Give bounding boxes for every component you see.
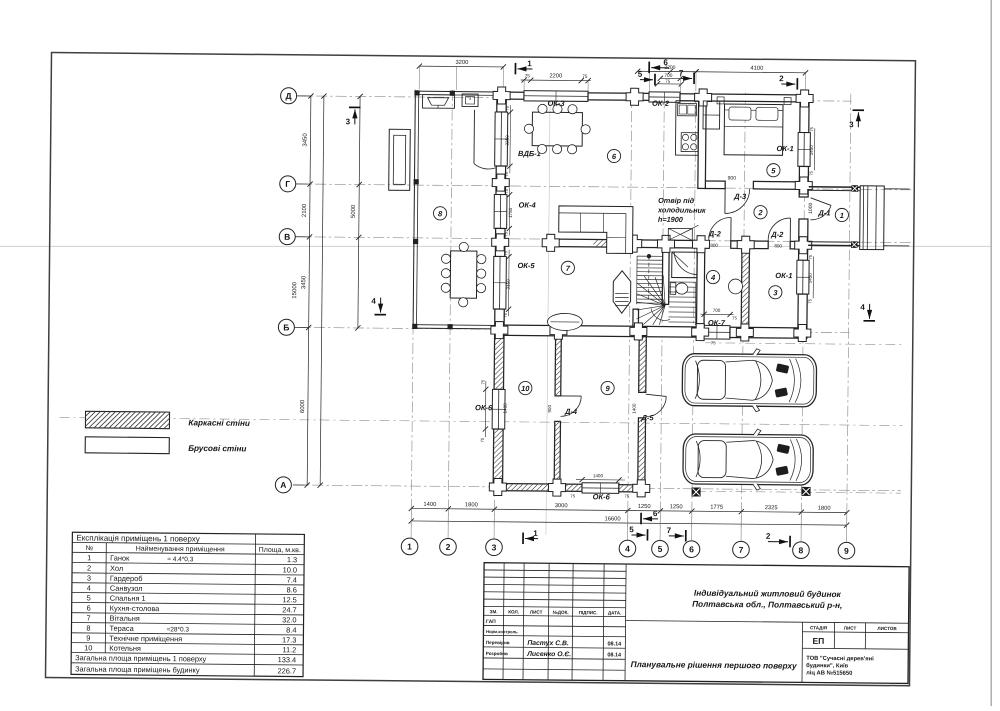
svg-text:3450: 3450: [300, 275, 307, 289]
svg-text:9: 9: [844, 546, 849, 556]
svg-text:Санвузол: Санвузол: [110, 584, 143, 593]
porch post upper: [852, 185, 859, 192]
svg-text:h=1900: h=1900: [658, 215, 683, 224]
bedroom wardrobe: [703, 101, 720, 129]
terrace sink unit: [462, 94, 478, 107]
svg-text:5: 5: [629, 525, 634, 534]
bottom dimension chain segments: [409, 501, 850, 516]
svg-text:Лисенко О.Є.: Лисенко О.Є.: [526, 651, 571, 658]
sofa L-shaped: [559, 206, 633, 254]
window ОК-1 lower label: [775, 271, 792, 280]
porch steps: [860, 186, 885, 250]
svg-text:№ДОК.: №ДОК.: [553, 610, 569, 615]
room 9 number: [601, 381, 614, 394]
wing bottom wall right part: [619, 485, 645, 492]
svg-text:24.7: 24.7: [282, 605, 296, 614]
legend log walls swatch: [85, 437, 169, 454]
fridge note leader line: [681, 225, 698, 234]
svg-text:Технічне приміщення: Технічне приміщення: [109, 634, 182, 644]
svg-text:1400: 1400: [503, 403, 508, 414]
title block row Розробив: [486, 650, 622, 658]
window ОК-3: [524, 91, 588, 102]
svg-text:ОК-6: ОК-6: [475, 403, 493, 412]
terrace bottom edge: [413, 325, 495, 329]
grid bubble 2: [440, 509, 457, 555]
wing partition wall lower: [554, 421, 560, 484]
svg-text:75: 75: [505, 105, 510, 110]
svg-text:2100: 2100: [301, 203, 308, 217]
top dimension 3200: [417, 58, 506, 90]
room schedule row 5 Спальня 1: [87, 593, 297, 604]
wall on axis 6 upper (kitchen/bedroom partition): [698, 101, 706, 189]
svg-text:= 4.4*0,3: = 4.4*0,3: [167, 556, 194, 563]
stairwell left wall: [633, 309, 639, 326]
balcony door ВДБ-1 open leaf: [474, 110, 496, 169]
svg-text:Площа, м.кв.: Площа, м.кв.: [259, 547, 301, 554]
room schedule table grid: [71, 532, 304, 676]
svg-text:Тераса: Тераса: [109, 624, 134, 633]
svg-text:900: 900: [547, 404, 552, 412]
svg-text:7: 7: [86, 613, 90, 622]
svg-text:ОК-1: ОК-1: [775, 271, 792, 280]
section marker 6 bottom: [641, 509, 658, 524]
left dimension chain total: [289, 93, 326, 488]
wing right wall lower: [638, 418, 646, 492]
svg-text:Хол: Хол: [110, 564, 123, 573]
room schedule row 8 Тераса: [86, 624, 296, 635]
svg-text:7: 7: [667, 526, 672, 535]
grid bubble 8: [793, 512, 810, 558]
svg-text:Індивідуальний житловий будино: Індивідуальний житловий будинок: [694, 588, 842, 599]
terrace left edge (axis 1): [413, 91, 419, 328]
washbasin: [728, 279, 742, 294]
section marker 2 bottom: [766, 532, 790, 548]
window ОК-1 lower dim: [807, 254, 813, 303]
window ОК-3 label: [547, 99, 565, 108]
svg-text:08.14: 08.14: [607, 652, 622, 658]
grid bubble Г: [280, 176, 310, 192]
grid bubble 5: [652, 511, 669, 557]
svg-text:1450: 1450: [808, 273, 813, 284]
stage value ЕП: [812, 636, 824, 646]
title block row Перевірив: [486, 639, 622, 647]
left wall segment 2: [496, 166, 506, 195]
svg-text:4100: 4100: [750, 65, 763, 72]
wall on axis Г (bedroom partition) left part: [705, 181, 725, 189]
room schedule column headers: [85, 544, 300, 554]
section marker 2 top: [779, 74, 797, 89]
fridge note text: [657, 196, 706, 224]
car upper: [682, 348, 817, 412]
svg-text:3: 3: [87, 574, 91, 583]
svg-text:А: А: [280, 480, 286, 490]
left wall segment 3: [495, 228, 505, 256]
survey mark left: [692, 487, 701, 496]
svg-text:7: 7: [739, 545, 744, 555]
svg-text:2325: 2325: [765, 504, 778, 511]
room schedule total floor row: [75, 653, 296, 664]
wall on axis В segment middle: [731, 241, 768, 249]
svg-text:СТАДІЯ: СТАДІЯ: [810, 625, 827, 630]
svg-text:Д-4: Д-4: [564, 407, 578, 416]
svg-text:2: 2: [757, 208, 763, 217]
svg-text:75: 75: [809, 126, 814, 131]
top wall segment middle: [588, 93, 649, 101]
grid bubble В: [279, 229, 309, 245]
svg-text:Перевірив: Перевірив: [486, 640, 510, 645]
room schedule row 4 Санвузол: [87, 583, 297, 594]
svg-text:В: В: [284, 232, 290, 242]
outdoor fireplace left of terrace: [389, 129, 411, 190]
svg-text:1250: 1250: [638, 503, 651, 510]
svg-text:8: 8: [86, 624, 90, 633]
svg-text:ЗМ.: ЗМ.: [490, 609, 498, 614]
svg-text:1.3: 1.3: [287, 555, 297, 564]
svg-text:75: 75: [570, 493, 575, 498]
window ОК-5: [493, 256, 506, 309]
window ОК-2 label: [652, 99, 670, 108]
bathroom partition wall (hatched): [741, 248, 749, 327]
svg-text:ОК-2: ОК-2: [652, 99, 670, 108]
svg-text:1400: 1400: [632, 403, 637, 414]
svg-text:800: 800: [774, 243, 782, 248]
window ОК-5 dim 2150: [506, 279, 511, 290]
door Д-5 label: [640, 413, 654, 422]
svg-text:10.0: 10.0: [283, 565, 297, 574]
svg-text:75: 75: [624, 494, 629, 499]
svg-text:32.0: 32.0: [282, 615, 296, 624]
svg-text:1400: 1400: [423, 501, 436, 508]
wall on axis 6 lower (stair/bath partition): [697, 248, 705, 327]
grid bubble 7: [733, 512, 750, 558]
svg-text:ГАП: ГАП: [486, 619, 496, 625]
svg-text:Каркасні стіни: Каркасні стіни: [188, 418, 250, 428]
kitchen stove: [681, 133, 698, 152]
window ОК-1 upper: [798, 133, 811, 167]
left dimension chain inner: [298, 93, 313, 487]
room schedule total building row: [75, 664, 296, 675]
svg-text:Вітальня: Вітальня: [110, 614, 140, 623]
svg-text:ОК-5: ОК-5: [517, 261, 535, 270]
svg-text:Ганок: Ганок: [110, 553, 130, 562]
window ОК-1 upper label: [777, 144, 794, 153]
kitchen sink: [678, 103, 697, 116]
svg-text:1: 1: [87, 553, 91, 562]
bedside table right: [784, 98, 791, 105]
car lower: [683, 428, 814, 490]
grid bubble 1: [401, 508, 418, 554]
svg-text:75: 75: [503, 312, 508, 317]
top dimension 2200 window ОК-3: [521, 72, 591, 91]
svg-text:ліц АВ №515650: ліц АВ №515650: [806, 669, 852, 676]
svg-text:17.3: 17.3: [282, 635, 296, 644]
svg-text:5: 5: [87, 593, 91, 602]
svg-text:6: 6: [663, 58, 668, 67]
svg-text:2250: 2250: [505, 135, 510, 146]
svg-text:Д-2: Д-2: [708, 229, 722, 238]
door Д-4 label: [564, 407, 578, 416]
staircase start dot and centerline: [646, 254, 651, 300]
svg-text:Експлікація приміщень 1 поверх: Експлікація приміщень 1 поверху: [76, 533, 200, 543]
svg-text:8.6: 8.6: [287, 585, 297, 594]
svg-text:Розробив: Розробив: [486, 651, 508, 656]
svg-text:1000: 1000: [808, 202, 814, 213]
sheet frame: [46, 52, 916, 685]
staircase left run steps: [637, 256, 663, 304]
svg-text:08.14: 08.14: [607, 641, 622, 647]
room schedule row 7 Вітальня: [86, 613, 296, 624]
window ОК-6 bottom label: [593, 492, 611, 501]
room 3 number: [769, 286, 782, 299]
door Д-3 label: [733, 192, 747, 201]
wing left wall lower: [493, 429, 503, 491]
svg-text:7: 7: [679, 69, 684, 78]
svg-text:Кухня-столова: Кухня-столова: [110, 604, 161, 613]
stair spine wall: [662, 240, 669, 304]
door Д-4 leaf and arc: [561, 396, 582, 417]
svg-text:ОК-3: ОК-3: [547, 99, 565, 108]
svg-text:Д: Д: [286, 91, 292, 101]
svg-text:ОК-1: ОК-1: [777, 144, 794, 153]
svg-text:3: 3: [849, 120, 854, 129]
room schedule row 6 Кухня-столова: [87, 603, 297, 614]
svg-text:900: 900: [728, 175, 737, 181]
window ОК-2 dims 700 and 75: [650, 71, 685, 93]
window ОК-4 label: [519, 200, 537, 209]
window ОК-1 upper dim: [809, 126, 815, 175]
svg-text:75: 75: [582, 74, 588, 80]
svg-text:1250: 1250: [670, 503, 683, 510]
svg-text:ОК-7: ОК-7: [708, 318, 726, 327]
svg-text:Найменування приміщення: Найменування приміщення: [136, 545, 225, 554]
staircase winder fan: [636, 275, 670, 325]
parking dashed line above cars: [705, 343, 902, 345]
window ОК-6 left label: [475, 403, 493, 412]
staircase right run steps: [668, 287, 695, 322]
window ОК-7 label: [708, 318, 726, 327]
svg-text:75: 75: [504, 171, 509, 176]
door Д-1 label: [817, 208, 830, 217]
svg-text:3: 3: [346, 117, 351, 126]
svg-text:Пастух С.В.: Пастух С.В.: [527, 640, 569, 647]
terrace posts: [412, 90, 455, 329]
scan crease line horizontal: [0, 245, 991, 247]
door ВДБ-1 dim 2250: [505, 135, 510, 146]
horizontal axis lines Д Г В Б А: [293, 96, 914, 491]
dining table room 6: [524, 104, 590, 154]
porch extension lines: [884, 189, 910, 246]
fold line vertical: [546, 95, 550, 535]
svg-text:Д-3: Д-3: [733, 192, 747, 201]
grid bubble 3: [486, 509, 503, 555]
right wall segment 3: [799, 219, 808, 260]
svg-text:11.2: 11.2: [282, 645, 296, 654]
staircase landing line: [668, 282, 695, 325]
bottom wall Б segment right: [730, 327, 807, 338]
svg-text:Норм.контроль: Норм.контроль: [486, 629, 518, 634]
svg-text:№: №: [85, 545, 93, 552]
svg-text:700: 700: [713, 308, 721, 313]
svg-text:4: 4: [860, 303, 865, 312]
legend label Брусові стіни: [188, 444, 246, 454]
svg-text:2: 2: [446, 542, 451, 552]
svg-text:1750: 1750: [508, 207, 513, 218]
svg-text:1: 1: [840, 211, 844, 220]
top dimension over kitchen 2200: [635, 65, 699, 75]
svg-text:1: 1: [527, 59, 532, 68]
svg-text:75: 75: [480, 379, 485, 384]
section marker 7 top: [679, 69, 694, 84]
left dimension chain 5000: [349, 94, 363, 331]
svg-text:1775: 1775: [710, 505, 723, 511]
masonry stove (hatched lens): [613, 271, 631, 314]
svg-text:10: 10: [521, 384, 530, 393]
svg-text:Б: Б: [283, 322, 289, 332]
sheet title text: [631, 659, 797, 671]
svg-text:133.4: 133.4: [278, 655, 297, 664]
door Д-1 leaf and arc: [810, 198, 831, 220]
balcony door ВДБ-1 in left wall: [495, 112, 508, 166]
right wall segment 4: [798, 294, 807, 338]
svg-text:Планувальне рішення першого по: Планувальне рішення першого поверху: [631, 659, 797, 671]
room 1 number: [835, 208, 848, 221]
window ОК-4: [494, 195, 507, 229]
svg-text:8: 8: [799, 545, 804, 555]
wall on axis Г right part: [753, 181, 799, 189]
svg-text:ДАТА.: ДАТА.: [608, 610, 622, 615]
svg-text:Загальна площа приміщень будин: Загальна площа приміщень будинку: [75, 664, 200, 674]
svg-text:4: 4: [625, 544, 630, 554]
wing partition wall upper (rooms 10/9): [555, 336, 561, 396]
svg-text:Д-2: Д-2: [770, 230, 784, 239]
section marker 3 left: [346, 107, 361, 126]
svg-text:5: 5: [638, 70, 643, 79]
svg-text:10: 10: [84, 643, 92, 652]
room 7 number: [561, 261, 574, 274]
room schedule row 10 Котельня: [84, 643, 296, 654]
svg-text:8.4: 8.4: [286, 625, 296, 634]
door Д-2 right label: [770, 230, 784, 239]
room 8 number: [433, 207, 446, 220]
door Д-4 width 900 rotated: [547, 404, 552, 412]
door Д-2 left label: [708, 229, 722, 238]
svg-text:12.5: 12.5: [282, 595, 296, 604]
room schedule row 1 Ганок: [87, 553, 297, 564]
porch top rail: [809, 187, 861, 191]
door Д-2 left leaf and arc: [709, 217, 731, 241]
top dimension 4100: [693, 64, 808, 92]
svg-text:Д-1: Д-1: [817, 208, 830, 217]
left wall segment 1: [497, 92, 507, 112]
door Д-1 width 1000: [808, 202, 814, 213]
svg-text:1450: 1450: [809, 145, 814, 156]
door Д-2 right width 800: [774, 243, 782, 248]
stage header labels: [810, 625, 897, 631]
svg-text:1800: 1800: [465, 501, 478, 508]
svg-text:Загальна площа приміщень 1 пов: Загальна площа приміщень 1 поверху: [75, 653, 206, 663]
svg-text:1400: 1400: [593, 473, 604, 478]
window ОК-5 label: [517, 261, 535, 270]
svg-text:3200: 3200: [455, 59, 468, 66]
svg-text:Д-5: Д-5: [640, 413, 654, 422]
terrace dining table: [441, 242, 486, 307]
window ОК-6 left dim: [480, 379, 508, 443]
svg-text:1: 1: [407, 542, 412, 552]
door Д-3 leaf and arc: [725, 189, 750, 214]
svg-text:ЛИСТ: ЛИСТ: [844, 626, 857, 631]
door Д-2 left width 800: [710, 243, 718, 248]
terrace top edge: [415, 91, 497, 95]
svg-text:15000: 15000: [291, 281, 298, 298]
room schedule table title: [76, 533, 200, 543]
svg-text:КОЛ.: КОЛ.: [508, 609, 519, 614]
section marker 7 bottom: [667, 526, 686, 541]
svg-text:ЕП: ЕП: [812, 636, 824, 646]
wing right wall upper: [639, 337, 647, 393]
svg-text:800: 800: [710, 243, 718, 248]
svg-text:холодильник: холодильник: [657, 205, 706, 214]
svg-text:75: 75: [503, 250, 508, 255]
bed: [724, 104, 783, 155]
svg-text:3450: 3450: [302, 133, 309, 147]
parking boundary dashed line: [60, 417, 903, 425]
svg-text:75: 75: [809, 170, 814, 175]
grid bubble 9: [838, 513, 855, 559]
svg-text:ЛИСТОВ: ЛИСТОВ: [877, 626, 897, 631]
svg-text:Г: Г: [285, 179, 290, 189]
title block outline: [483, 563, 909, 684]
title block left grid: [483, 563, 626, 681]
svg-text:2: 2: [766, 532, 771, 541]
legend frame walls swatch (hatched): [85, 411, 169, 428]
svg-text:Котельня: Котельня: [109, 644, 141, 653]
svg-text:3000: 3000: [555, 502, 568, 509]
svg-text:ОК-4: ОК-4: [519, 200, 537, 209]
window ОК-6 bottom: [582, 483, 619, 494]
legend label Каркасні стіни: [188, 418, 250, 428]
window ОК-1 lower: [797, 260, 810, 294]
grid bubble А: [275, 477, 307, 493]
svg-text:1: 1: [533, 529, 538, 538]
title block header row labels: [490, 609, 622, 615]
section marker 1 bottom: [523, 529, 538, 544]
svg-text:75: 75: [808, 254, 813, 259]
svg-text:2: 2: [779, 74, 784, 83]
right wall segment 1: [800, 95, 809, 133]
wing left wall upper: [494, 335, 504, 389]
kitchen counter: [675, 101, 698, 156]
svg-text:75: 75: [732, 316, 737, 321]
section marker 5 top: [638, 70, 655, 85]
wall on axis В segment right: [790, 241, 808, 249]
scan right edge line: [990, 0, 992, 706]
section marker 4 left: [371, 297, 386, 315]
grid bubble Б: [278, 319, 308, 335]
door Д-2 right leaf and arc: [768, 218, 790, 242]
section marker 6 top: [649, 58, 669, 73]
toilet: [670, 283, 688, 295]
svg-text:Спальня 1: Спальня 1: [110, 594, 146, 603]
section marker 4 right: [860, 303, 875, 321]
parking dashed line below cars: [696, 491, 901, 493]
svg-text:75: 75: [665, 79, 670, 84]
room schedule row 2 Хол: [87, 564, 297, 575]
wall on axis В segment left (hatched frame wall): [547, 239, 709, 248]
svg-text:16600: 16600: [604, 515, 620, 522]
svg-text:75: 75: [807, 298, 812, 303]
grid bubble 4: [619, 510, 636, 556]
svg-text:6: 6: [653, 509, 658, 518]
